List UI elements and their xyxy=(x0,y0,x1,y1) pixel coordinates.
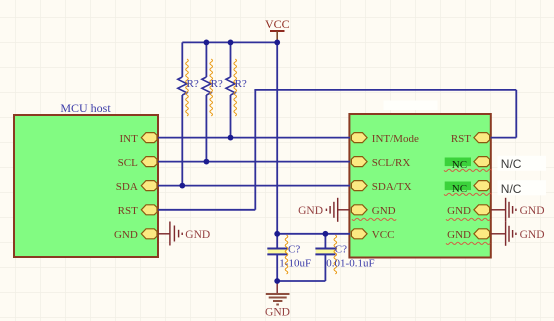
svg-text:R?: R? xyxy=(211,78,223,90)
pin VCC of U2 xyxy=(351,229,394,241)
power port VCC top xyxy=(265,17,290,42)
svg-text:GND: GND xyxy=(265,307,290,319)
svg-text:SCL/RX: SCL/RX xyxy=(372,157,411,169)
svg-text:INT/Mode: INT/Mode xyxy=(372,133,419,145)
wire VCC row to U2 VCC pin xyxy=(277,233,350,235)
svg-text:1-10uF: 1-10uF xyxy=(279,257,311,269)
power port GND at U2 left GND pin xyxy=(298,198,350,222)
svg-text:NC: NC xyxy=(452,183,467,195)
sheet symbol U2 sensor device xyxy=(349,114,490,258)
compile wavy underline NC1 xyxy=(444,169,492,171)
svg-text:INT: INT xyxy=(119,133,138,145)
power port GND at U2 right GND pin 1 xyxy=(491,198,545,222)
svg-text:VCC: VCC xyxy=(265,17,290,31)
pin SCL of MCU host xyxy=(118,157,157,169)
svg-text:N/C: N/C xyxy=(501,182,522,196)
power port GND bottom xyxy=(265,281,290,319)
wire RST net into U2 RST pin xyxy=(491,137,517,139)
resistor R2 (R?) pull-up on SCL xyxy=(202,42,211,161)
node junction R2 SCL net xyxy=(204,159,210,165)
pin NC 1 of U2 with highlight xyxy=(445,157,490,172)
wire RST net vertical riser xyxy=(254,90,256,210)
resistor R1 (R?) pull-up on SDA xyxy=(178,42,187,185)
pin GND of MCU host xyxy=(114,229,157,241)
node junction ground bus C1 xyxy=(274,278,280,284)
svg-text:R?: R? xyxy=(187,78,199,90)
compile wavy underline GND left pin xyxy=(352,218,396,220)
pin SCL/RX of U2 xyxy=(351,157,410,169)
label sheet symbol name MCU host xyxy=(60,101,111,115)
compile squiggle C2 xyxy=(334,235,337,274)
svg-text:GND: GND xyxy=(372,205,396,217)
resistor R3 (R?) pull-up on INT xyxy=(226,42,235,137)
pin INT/Mode of U2 xyxy=(351,133,419,145)
node junction R1 SDA net xyxy=(179,183,185,189)
power port GND at MCU host GND pin xyxy=(158,222,210,246)
white patch above U2 xyxy=(384,101,438,111)
compile squiggle R2 xyxy=(210,59,213,116)
svg-text:RST: RST xyxy=(118,205,138,217)
node junction VCC rail R2 xyxy=(204,40,210,46)
svg-text:GND: GND xyxy=(520,229,545,241)
svg-text:GND: GND xyxy=(520,205,545,217)
wire capacitor C2 bottom stub xyxy=(324,254,326,281)
svg-text:GND: GND xyxy=(185,229,210,241)
wire VCC rail top horizontal xyxy=(182,41,277,43)
label N/C 1 xyxy=(498,156,547,171)
svg-text:GND: GND xyxy=(298,205,323,217)
pin SDA/TX of U2 xyxy=(351,181,411,193)
node junction R3 INT net xyxy=(228,135,234,141)
compile squiggle R3 xyxy=(234,59,237,116)
svg-text:GND: GND xyxy=(114,229,138,241)
wire SCL net horizontal MCU to U2 xyxy=(158,161,350,163)
wire capacitor C1 bottom stub xyxy=(276,254,278,281)
wire RST net top horizontal xyxy=(254,89,516,91)
wire bottom ground bus horizontal xyxy=(277,280,325,282)
node junction VCC row C1 xyxy=(274,231,280,237)
svg-text:GND: GND xyxy=(447,229,471,241)
capacitor C2 (C?) plates xyxy=(315,249,335,255)
pin GND right 2 of U2 xyxy=(447,229,489,241)
svg-text:GND: GND xyxy=(447,205,471,217)
pin NC 2 of U2 with highlight xyxy=(445,181,490,196)
node junction VCC rail R3 xyxy=(228,40,234,46)
label N/C 2 xyxy=(498,180,547,196)
svg-text:SCL: SCL xyxy=(118,157,138,169)
node junction VCC rail stub xyxy=(274,40,280,46)
wire VCC rail vertical drop xyxy=(276,42,278,248)
svg-text:RST: RST xyxy=(451,133,471,145)
svg-text:SDA/TX: SDA/TX xyxy=(372,181,412,193)
pin SDA of MCU host xyxy=(116,181,157,193)
compile squiggle R1 xyxy=(186,59,189,116)
compile squiggle C1 xyxy=(285,235,288,274)
svg-text:N/C: N/C xyxy=(501,157,522,171)
pin RST of U2 right side xyxy=(451,133,490,145)
pin GND left of U2 xyxy=(351,205,395,217)
wire RST net from MCU xyxy=(158,209,255,211)
svg-text:SDA: SDA xyxy=(116,181,138,193)
sheet symbol U1 MCU host xyxy=(14,115,158,257)
compile wavy underline GND right 1 xyxy=(446,218,490,220)
pin GND right 1 of U2 xyxy=(447,205,489,217)
svg-text:0.01-0.1uF: 0.01-0.1uF xyxy=(326,257,374,269)
wire INT net horizontal MCU to U2 xyxy=(158,137,350,139)
wire SDA net horizontal MCU to U2 xyxy=(158,185,350,187)
power port GND at U2 right GND pin 2 xyxy=(491,222,545,246)
node junction VCC row C2 xyxy=(323,231,329,237)
svg-text:MCU host: MCU host xyxy=(60,101,111,115)
svg-text:C?: C? xyxy=(335,244,347,256)
pin RST of MCU host xyxy=(118,205,157,217)
svg-text:VCC: VCC xyxy=(372,229,395,241)
capacitor C1 (C?) plates xyxy=(267,249,287,255)
wire capacitor C2 top stub xyxy=(324,234,326,249)
svg-text:NC: NC xyxy=(452,159,467,171)
compile wavy underline GND right 2 xyxy=(446,242,490,244)
svg-text:R?: R? xyxy=(235,78,247,90)
wire RST net right vertical drop xyxy=(515,90,517,138)
compile wavy underline NC2 xyxy=(444,193,492,195)
pin INT of MCU host xyxy=(119,133,157,145)
svg-text:C?: C? xyxy=(288,244,300,256)
